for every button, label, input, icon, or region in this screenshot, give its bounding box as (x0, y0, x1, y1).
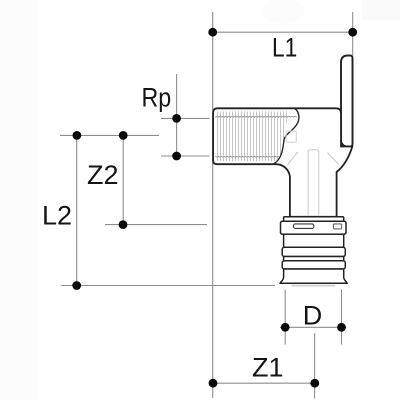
wire Rp lower extension (161, 155, 210, 157)
hidden step rectangle (286, 131, 296, 142)
node D right (337, 323, 346, 332)
wire D right extension (341, 290, 343, 345)
press body section (284, 234, 344, 247)
node Z1 left (209, 379, 218, 388)
press end flare (280, 269, 347, 283)
faint watermark ring (262, 0, 304, 24)
sleeve window slot (293, 224, 314, 229)
node axis L2 (73, 131, 82, 140)
wire L2 dimension line (76, 135, 78, 285)
svg-text:L2: L2 (42, 201, 72, 231)
thread end S-curve (273, 109, 299, 165)
faint corner patch (362, 0, 400, 20)
chamfer diagonal left (288, 152, 298, 165)
wire Rp dimension line (176, 74, 178, 158)
wire D dimension line (280, 326, 346, 328)
wire left extension line (212, 12, 214, 398)
wire Rp upper extension (161, 117, 210, 119)
chamfer diagonal right (328, 153, 339, 165)
node axis Z2 (119, 131, 128, 140)
node L2 bottom (72, 281, 81, 290)
node L1 right (348, 28, 357, 37)
svg-text:Z2: Z2 (87, 160, 119, 190)
flange wall plate (341, 56, 353, 147)
svg-text:D: D (303, 301, 323, 331)
thread crest top (216, 117, 297, 118)
node Z1 right (310, 379, 319, 388)
press groove (284, 257, 344, 261)
node Rp lower (172, 152, 181, 161)
wire port axis line (60, 134, 159, 136)
wire Z1 dimension line (213, 382, 315, 384)
svg-text:L1: L1 (272, 33, 297, 63)
wire L1 dimension line (213, 31, 353, 33)
node Z2 bottom (119, 220, 128, 229)
thread crest bottom (216, 156, 279, 157)
wire pipe axis extension (314, 333, 316, 398)
wire Z2 dimension line (122, 135, 124, 224)
node Rp upper (172, 114, 181, 123)
svg-text:Z1: Z1 (252, 353, 284, 383)
inner bore outline (308, 150, 319, 217)
press sleeve (281, 221, 347, 234)
sleeve right window (333, 224, 341, 229)
wire D left extension (284, 290, 286, 345)
node L1 left (208, 28, 217, 37)
pipe end indicator (292, 285, 336, 287)
wire L2 bottom extension (61, 285, 275, 287)
fitting body (213, 108, 352, 217)
thread hatch lines (218, 112, 293, 162)
svg-text:Rp: Rp (142, 83, 172, 113)
press rib 1 (282, 247, 345, 256)
wire Z2 bottom extension (105, 224, 207, 226)
press rib 2 (282, 261, 345, 269)
press collar (284, 217, 344, 222)
node D left (281, 323, 290, 332)
scan band left (0, 0, 37, 400)
wire L1 right extension (352, 12, 354, 55)
